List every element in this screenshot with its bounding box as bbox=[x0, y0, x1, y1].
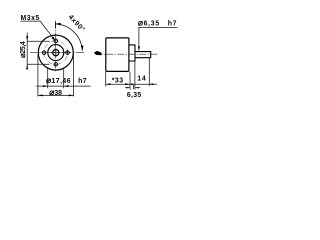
front view outer circle d38 bbox=[38, 35, 73, 70]
svg-text:*33: *33 bbox=[112, 77, 124, 84]
svg-text:6,35: 6,35 bbox=[127, 92, 142, 99]
dim 33 line bbox=[106, 83, 130, 85]
dim 17.46 arrows bbox=[43, 85, 48, 87]
arc ext line vertical bbox=[54, 21, 56, 28]
dim 17.46 line bbox=[36, 85, 90, 87]
dim 38 ext lines bbox=[38, 54, 74, 96]
arc arrow right bbox=[81, 46, 84, 51]
horizontal centerline bbox=[30, 52, 84, 54]
dim 17.46 ext lines bbox=[48, 67, 64, 88]
svg-text:⌀25,4: ⌀25,4 bbox=[18, 41, 27, 58]
ext line C bbox=[148, 58, 150, 86]
M3 hole top bbox=[53, 38, 58, 43]
ext line body-left bbox=[105, 72, 107, 87]
ext line A bbox=[129, 72, 131, 90]
M3 hole bottom bbox=[53, 62, 58, 67]
side view boss bbox=[129, 45, 135, 61]
M3 hole right bbox=[65, 50, 70, 55]
leader M3x5 bbox=[21, 21, 55, 40]
pilot circle d17.46 bbox=[48, 45, 64, 61]
dim 25.4 arrows bbox=[26, 36, 28, 41]
dim 38 line bbox=[38, 94, 74, 96]
arc arrow top bbox=[55, 23, 61, 26]
bolt circle d25.4 dash-dot bbox=[44, 41, 68, 65]
center bore d6.35 bbox=[53, 50, 59, 56]
center cross bbox=[51, 48, 60, 57]
side view shaft bbox=[135, 52, 151, 58]
M3 hole left bbox=[42, 50, 47, 55]
dim 38 arrows bbox=[38, 94, 43, 96]
dim 6.35 leader tick bbox=[133, 85, 135, 89]
dim 14 line bbox=[131, 83, 157, 85]
dim 25.4 line bbox=[26, 33, 28, 69]
dim 25.4 ext top bbox=[27, 40, 49, 42]
leader d6.35 h7 bbox=[138, 27, 177, 47]
vertical centerline bbox=[55, 23, 57, 72]
dim 25.4 ext bottom bbox=[27, 63, 49, 65]
ext line B bbox=[134, 61, 136, 89]
angular dim arc 4x90 bbox=[55, 24, 82, 51]
side centerline bbox=[95, 53, 157, 55]
rear stub bbox=[94, 51, 102, 55]
side view body bbox=[106, 38, 129, 72]
svg-text:14: 14 bbox=[137, 76, 146, 83]
dim 6.35 arrows bbox=[125, 87, 141, 89]
